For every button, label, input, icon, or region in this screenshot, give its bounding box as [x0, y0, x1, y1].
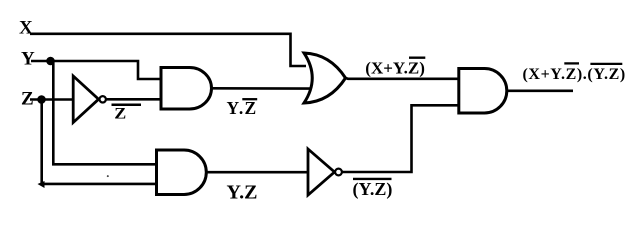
inverter U1 (top NOT gate for Zbar): [73, 76, 106, 123]
svg-text:Y.Z: Y.Z: [227, 98, 258, 118]
label Zbar overline: [112, 104, 142, 107]
OR gate U3 (X + Y.Zbar): [304, 53, 346, 103]
label (X+Y.Zbar) overline: [409, 57, 425, 59]
svg-text:(X+Y.Z).(Y.Z): (X+Y.Z).(Y.Z): [523, 66, 626, 83]
label (X+Y.Zbar) text: [365, 58, 425, 77]
wire U1 output to top AND lower input: [106, 98, 162, 101]
label Y.Z text: [227, 182, 258, 204]
input label Y: [21, 49, 35, 70]
AND gate U6 (final output): [459, 69, 507, 114]
corner artifact arrowhead at Z branch corner: [38, 181, 45, 188]
label Y.Zbar text: [227, 98, 258, 118]
svg-text:Y: Y: [21, 49, 35, 70]
svg-text:X: X: [19, 18, 33, 39]
label final expression text: [523, 66, 626, 83]
svg-text:Y.Z: Y.Z: [227, 182, 258, 204]
wire U5 output: right then up into final AND lower input: [342, 105, 459, 172]
wire U4 output to bottom NOT input: [207, 171, 309, 174]
svg-text:(Y.Z): (Y.Z): [353, 179, 393, 200]
wire Z branch: down from junction to bottom AND lower input: [42, 100, 158, 184]
wire Z: label to junction to NOT gate input: [30, 98, 74, 101]
label (Y.Z)bar text: [353, 179, 393, 200]
label (Y.Z)bar overline: [353, 178, 392, 180]
label final expression first overline (over Z): [564, 62, 579, 64]
input label Z: [21, 89, 34, 110]
inverter U5 (bottom NOT gate for (Y.Z)bar): [308, 149, 342, 195]
label final expression second overline (over (Y.Z): [590, 63, 622, 65]
wire X: from X label right, down, into OR top input: [30, 34, 306, 66]
svg-text:Z: Z: [114, 105, 126, 122]
svg-text:(X+Y.Z): (X+Y.Z): [365, 58, 425, 77]
wire U3 output to final AND upper input: [346, 77, 460, 80]
label Y.Zbar overline: [242, 98, 257, 100]
AND gate U2 (top, Y.Zbar): [161, 68, 211, 110]
wire Y branch: down from junction to bottom AND top input: [53, 61, 157, 164]
wire U6 output: [507, 90, 573, 93]
speck artifact: [107, 175, 109, 177]
label Zbar text: [114, 105, 126, 122]
node Z junction dot: [37, 95, 46, 104]
wire U2 output to OR lower input: [212, 87, 310, 90]
node Y junction dot: [46, 57, 55, 66]
wire Y: label to junction, then stepped into top AND input: [31, 61, 162, 79]
input label X: [19, 18, 33, 39]
AND gate U4 (bottom, Y.Z): [157, 150, 207, 195]
